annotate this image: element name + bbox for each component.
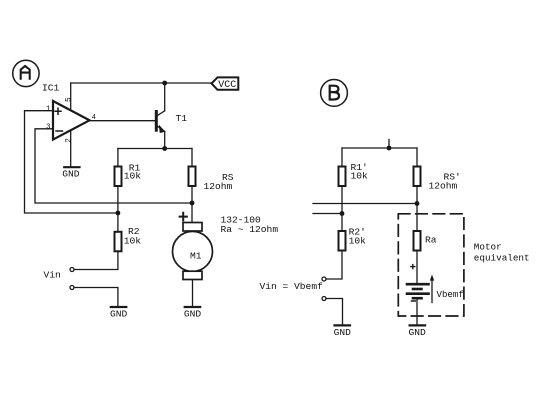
label battery minus xyxy=(412,300,416,302)
wire motor to ground xyxy=(192,280,194,307)
svg-text:Motor: Motor xyxy=(474,242,502,253)
resistor RS xyxy=(189,167,234,192)
wire R2 to Vin terminal xyxy=(74,251,118,269)
wire supply stub xyxy=(388,140,390,149)
wire stub net upper xyxy=(313,203,417,205)
wire pin5 to top rail xyxy=(70,83,72,111)
wire rail to RS' xyxy=(416,148,418,167)
svg-text:Vin = Vbemf: Vin = Vbemf xyxy=(260,281,324,292)
svg-text:Vbemf: Vbemf xyxy=(437,289,464,300)
svg-text:VCC: VCC xyxy=(218,80,236,91)
svg-text:Vin: Vin xyxy=(44,269,61,280)
wire inverting feedback (pin3) xyxy=(35,129,192,203)
resistor RS' xyxy=(414,167,461,192)
motor M1 xyxy=(173,223,213,280)
svg-text:3: 3 xyxy=(46,123,51,131)
svg-text:Ra ~ 12ohm: Ra ~ 12ohm xyxy=(221,224,279,235)
wire node to Ra xyxy=(416,204,418,232)
node collector/VCC junction xyxy=(162,81,167,86)
node emitter junction xyxy=(162,146,167,151)
wire lower terminal to ground xyxy=(74,288,118,307)
wire non-inverting feedback (pin1) xyxy=(25,111,118,213)
wire to R1 xyxy=(117,149,119,167)
transistor T1 xyxy=(156,111,187,133)
wire B top rail xyxy=(342,147,417,149)
ground B left xyxy=(334,325,352,338)
resistor R2 xyxy=(115,226,142,252)
op-amp IC1 xyxy=(53,101,90,140)
svg-text:12ohm: 12ohm xyxy=(429,180,458,191)
wire node to motor xyxy=(191,203,193,223)
svg-text:T1: T1 xyxy=(176,113,188,124)
svg-text:GND: GND xyxy=(184,309,202,320)
ground op-amp xyxy=(62,167,80,179)
wire top rail to VCC xyxy=(71,82,212,84)
svg-text:GND: GND xyxy=(334,327,352,338)
svg-text:2: 2 xyxy=(66,138,74,143)
ground Vin return xyxy=(110,307,128,320)
battery Vbemf xyxy=(407,284,429,298)
wire to RS xyxy=(191,149,193,167)
svg-text:M1: M1 xyxy=(190,250,202,261)
ground motor xyxy=(184,307,202,320)
wire op-amp output to T1 base xyxy=(90,120,156,122)
wire R1' to node xyxy=(341,186,343,214)
resistor R2' xyxy=(339,226,367,250)
wire rail to R1' xyxy=(341,148,343,167)
wire node to R2' xyxy=(341,214,343,232)
wire stub net lower xyxy=(313,213,342,215)
node RS'/Ra xyxy=(415,201,420,206)
label motor plus xyxy=(180,213,187,221)
wire RS to node xyxy=(191,186,193,203)
label battery plus xyxy=(411,265,415,269)
svg-text:10k: 10k xyxy=(124,170,142,181)
VCC flag xyxy=(212,77,239,91)
svg-text:Ra: Ra xyxy=(425,234,437,245)
node supply stub xyxy=(387,146,392,151)
arrow Vbemf direction xyxy=(430,275,434,303)
terminal Vin lower xyxy=(70,286,74,290)
wire battery to ground xyxy=(416,298,418,325)
resistor R1' xyxy=(339,162,369,186)
wire emitter rail xyxy=(118,148,192,150)
node R1/R2 divider xyxy=(116,211,121,216)
wire emitter down xyxy=(164,132,166,149)
wire lower terminal to ground xyxy=(326,299,343,325)
svg-text:10k: 10k xyxy=(351,170,369,181)
motor equivalent dashed box xyxy=(398,214,464,316)
ground battery xyxy=(409,325,427,338)
wire node to R2 xyxy=(117,213,119,232)
wire Ra to battery xyxy=(416,251,418,284)
svg-text:1: 1 xyxy=(46,105,51,113)
svg-text:12ohm: 12ohm xyxy=(204,181,233,192)
node R1'/R2' xyxy=(340,211,345,216)
svg-text:10k: 10k xyxy=(349,236,367,247)
wire R1 to node xyxy=(117,186,119,213)
svg-text:GND: GND xyxy=(110,309,128,320)
terminal Vin upper xyxy=(70,268,74,272)
circle marker B xyxy=(321,80,348,107)
resistor Ra xyxy=(414,231,437,251)
circle marker A xyxy=(13,60,39,86)
svg-text:GND: GND xyxy=(409,327,427,338)
node RS/motor xyxy=(190,201,195,206)
wire collector to rail xyxy=(164,83,166,111)
terminal Vbemf upper xyxy=(322,277,326,281)
terminal Vbemf lower xyxy=(322,297,326,301)
wire R2' to terminal xyxy=(326,251,342,280)
svg-text:GND: GND xyxy=(62,169,80,180)
svg-text:5: 5 xyxy=(66,97,74,102)
wire RS' to node xyxy=(416,186,418,204)
resistor R1 xyxy=(115,163,142,187)
svg-text:10k: 10k xyxy=(124,235,142,246)
wire pin2 to ground xyxy=(70,130,72,167)
svg-text:equivalent: equivalent xyxy=(474,252,530,263)
svg-text:IC1: IC1 xyxy=(42,83,60,94)
